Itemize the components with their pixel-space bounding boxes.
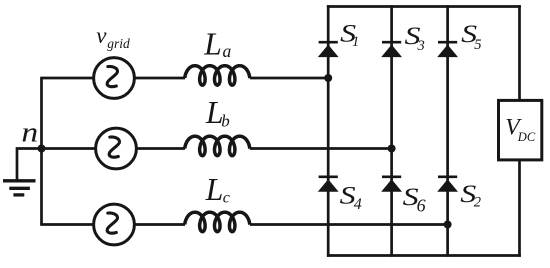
wire phase a from bus to source xyxy=(40,77,93,80)
ac source V1 xyxy=(94,58,135,99)
inductor La xyxy=(185,66,250,86)
wire phase c source to inductor xyxy=(134,223,185,226)
wire phase b from bus to source xyxy=(40,147,95,150)
svg-text:DC: DC xyxy=(517,130,536,144)
wire phase b inductor to rectifier xyxy=(250,147,393,150)
wire bottom bus xyxy=(327,254,521,257)
svg-text:2: 2 xyxy=(474,194,481,210)
switch S3 xyxy=(382,41,401,44)
ground xyxy=(3,179,36,182)
ac source V3 xyxy=(94,204,135,245)
svg-text:c: c xyxy=(223,189,230,206)
svg-text:n: n xyxy=(21,117,38,149)
inductor Lb xyxy=(185,136,250,156)
svg-text:5: 5 xyxy=(474,37,481,53)
svg-text:L: L xyxy=(203,26,222,61)
wire leg 2 xyxy=(390,5,393,257)
load VDC box xyxy=(499,100,542,159)
node c junction xyxy=(444,221,452,229)
switch S2 xyxy=(438,176,457,179)
svg-text:grid: grid xyxy=(107,36,130,51)
inductor Lc xyxy=(185,212,250,232)
switch S1 xyxy=(319,41,338,44)
svg-text:4: 4 xyxy=(354,196,362,213)
wire leg 3 xyxy=(446,5,449,257)
wire phase a source to inductor xyxy=(134,77,185,80)
wire phase b source to inductor xyxy=(136,147,185,150)
node b junction xyxy=(388,145,396,153)
wire right bus top xyxy=(518,5,521,100)
svg-text:3: 3 xyxy=(417,38,425,54)
wire ground stub xyxy=(17,149,42,181)
svg-text:v: v xyxy=(96,23,107,48)
svg-text:L: L xyxy=(205,172,224,207)
node n junction xyxy=(38,145,46,153)
switch S6 xyxy=(382,176,401,179)
wire top bus xyxy=(327,5,521,8)
wire left bus vertical xyxy=(40,78,43,225)
wire phase c from bus to source xyxy=(40,223,93,226)
svg-text:a: a xyxy=(223,41,232,61)
wire right bus bottom xyxy=(518,161,521,257)
switch S4 xyxy=(319,176,338,179)
svg-text:b: b xyxy=(221,112,230,131)
wire phase a inductor to rectifier xyxy=(250,77,330,80)
svg-text:1: 1 xyxy=(352,34,359,50)
ac source V2 xyxy=(96,128,137,169)
node a junction xyxy=(324,74,332,82)
svg-text:6: 6 xyxy=(417,195,426,215)
wire leg 1 xyxy=(327,5,330,257)
wire phase c inductor to rectifier xyxy=(250,223,449,226)
switch S5 xyxy=(438,41,457,44)
